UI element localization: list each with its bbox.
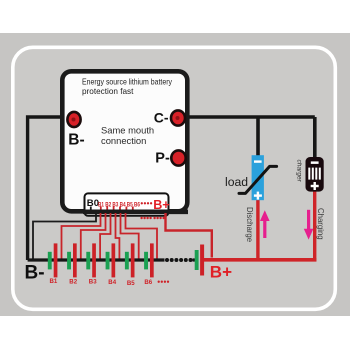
cell B3 [86, 243, 96, 277]
battery bus (black) [28, 258, 165, 261]
svg-text:C-: C- [154, 109, 169, 125]
svg-text:B2: B2 [105, 201, 111, 208]
svg-text:connection: connection [101, 135, 146, 146]
cell B5 [125, 243, 135, 277]
diagram plate [13, 47, 336, 309]
wire load drop (black) [256, 117, 260, 157]
cell B1 [48, 243, 58, 277]
svg-text:B3: B3 [89, 279, 97, 286]
svg-text:B6: B6 [144, 279, 152, 286]
wire charger drop (black) [313, 117, 317, 159]
sense wire B6 [126, 213, 158, 259]
pin tick B1 [100, 207, 102, 213]
svg-text:P-: P- [155, 151, 170, 167]
terminal C- pad [171, 110, 185, 125]
svg-text:B+: B+ [210, 263, 232, 282]
svg-text:charger: charger [296, 160, 303, 183]
charging arrow [304, 210, 314, 240]
pin tick B2 [106, 207, 108, 213]
cell ellipsis dots [158, 281, 170, 283]
sense wire B2 [81, 213, 106, 259]
cell B2 [67, 243, 77, 277]
load LD1 body [252, 155, 264, 200]
bus stub to last cell [193, 258, 197, 261]
charger CH1 body [306, 157, 324, 192]
svg-text:Energy source lithium battery: Energy source lithium battery [82, 78, 173, 87]
cell B6 [144, 243, 154, 277]
wire C- (black top bus to charger corner) [178, 115, 315, 119]
pin tick B5 [125, 207, 127, 213]
svg-text:B2: B2 [69, 278, 77, 285]
sense wire B5 [121, 213, 139, 259]
sense wire B1 [62, 213, 101, 259]
svg-text:B3: B3 [112, 201, 118, 208]
terminal B- pad [67, 112, 80, 127]
load switch lever [239, 166, 277, 193]
pin tick B3 [113, 207, 115, 213]
BMS board U1 [62, 71, 187, 211]
board bottom border over connector [83, 210, 188, 215]
wire B- (black: terminal to left rail down to battery bus) [28, 117, 74, 260]
connector ellipsis dots [141, 202, 153, 204]
ellipsis wires dots [140, 217, 164, 219]
svg-text:B+: B+ [153, 198, 169, 212]
sense wire B3 [100, 213, 110, 259]
svg-text:B4: B4 [108, 279, 116, 286]
svg-text:B-: B- [68, 131, 84, 148]
discharge arrow [260, 210, 270, 238]
svg-text:B6: B6 [134, 201, 140, 208]
terminal P- pad [171, 150, 185, 165]
load return wire (red) [256, 199, 259, 260]
wire B0 (thin black sense) [33, 207, 96, 259]
cell Bn (last) [195, 245, 204, 276]
svg-text:load: load [225, 175, 248, 189]
svg-text:B1: B1 [50, 278, 58, 285]
bus continuation dots [165, 258, 193, 262]
cell B4 [106, 243, 116, 277]
pin tick B4 [119, 207, 121, 213]
pin tick B6 [132, 207, 134, 213]
svg-text:B5: B5 [127, 280, 135, 287]
sense wire B+ [166, 213, 212, 258]
svg-text:B1: B1 [98, 201, 104, 208]
svg-text:protection fast: protection fast [82, 87, 134, 96]
balance connector J1 [85, 193, 169, 215]
svg-text:B4: B4 [120, 201, 126, 208]
charger return wire (red) [313, 190, 316, 261]
svg-text:B-: B- [25, 263, 45, 284]
svg-text:Charging: Charging [316, 208, 325, 240]
positive power bus (red) [204, 258, 317, 262]
sense wire B4 [116, 213, 120, 259]
svg-text:Discharge: Discharge [245, 207, 254, 242]
svg-text:B5: B5 [127, 201, 133, 208]
